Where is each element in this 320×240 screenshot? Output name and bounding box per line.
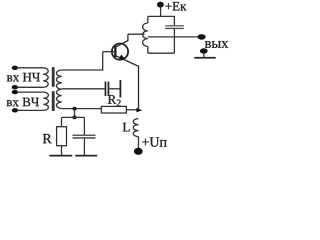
wire: R to ground: [61, 146, 63, 155]
capacitor C1 plate left: [105, 82, 107, 97]
wire: secondary tap to capacitor C1: [62, 88, 105, 90]
junction dot at emitter/R2/L: [136, 108, 142, 113]
label: вых: [205, 41, 228, 48]
wire: base lead: [103, 51, 115, 53]
wire: +Ек stem: [160, 7, 162, 17]
label: R: [43, 134, 52, 143]
node: output terminal: [198, 34, 206, 40]
wire: RC split horizontal: [62, 116, 85, 118]
label: R2 (R): [108, 95, 116, 104]
wire: output ground stem: [203, 53, 205, 58]
wire: tank top: [148, 15, 175, 17]
wire: secondary bottom to R2: [62, 108, 102, 110]
resistor R (box): [57, 127, 67, 146]
transformer T1 core: [52, 67, 55, 87]
node: вх НЧ bottom terminal: [12, 85, 44, 89]
transistor VT1: emitter lead with arrow: [116, 56, 139, 110]
wire: tank bottom: [148, 52, 175, 54]
label: +Ек: [165, 2, 186, 11]
stub plate (bar) right of C1: [120, 80, 122, 98]
transformer T2 primary winding (HF input coil): [43, 92, 48, 110]
junction dot at RC split: [72, 116, 76, 120]
transistor VT1: case circle: [112, 44, 128, 60]
tank capacitor bottom plate: [165, 28, 184, 29]
transistor VT1: collector lead: [116, 34, 128, 47]
tank inductor (3 half-turns): [143, 23, 148, 46]
node: вх ВЧ top terminal: [12, 90, 44, 94]
label: R2 (subscript 2): [117, 100, 121, 107]
tank capacitor top plate: [165, 25, 184, 26]
transformer T1 primary winding (LF input coil): [43, 68, 48, 88]
capacitor C2 bottom plate: [73, 137, 96, 139]
wire: tank left lower: [147, 46, 149, 53]
wire: collector to tank coil tap: [128, 33, 145, 35]
wire: L to +Uп: [138, 137, 140, 149]
resistor R2 (box): [101, 106, 126, 113]
node: вх ВЧ bottom terminal: [12, 108, 44, 112]
wire: drop to capacitor C2: [83, 117, 85, 135]
label: вх ВЧ: [7, 98, 39, 107]
wire: R2 right to emitter junction: [126, 109, 138, 111]
transformer secondary winding (6 half-turns, tapped): [56, 70, 61, 109]
ground bar under C2: [75, 155, 97, 157]
node: output ground terminal: [200, 48, 208, 53]
wire: output from tank coil tap: [148, 36, 200, 38]
label: +Uп: [142, 137, 166, 146]
ground bar under R: [49, 155, 72, 157]
capacitor C2 top plate: [73, 135, 96, 137]
junction dot on bottom wire: [72, 107, 76, 111]
ground bar at output: [194, 57, 216, 59]
wire: junction drop: [74, 109, 76, 118]
label: вх НЧ: [7, 73, 40, 82]
label: L: [123, 123, 130, 132]
node: вх НЧ top terminal: [12, 66, 44, 70]
wire: tank right lower: [173, 29, 175, 53]
wire: base riser (vertical): [102, 52, 104, 71]
wire: secondary top to base riser: [62, 69, 103, 71]
capacitor C1 plate right: [108, 82, 110, 97]
wire: tank left upper: [147, 16, 149, 23]
wire: drop to resistor R: [61, 117, 63, 126]
node: +Ек supply terminal: [157, 2, 164, 8]
inductor L (3 half-turns): [133, 119, 138, 137]
transistor VT1: emitter arrowhead: [119, 55, 125, 60]
transistor VT1: base bar: [114, 46, 116, 57]
wire: C2 to ground: [83, 139, 85, 155]
transformer T2 core: [52, 91, 55, 111]
wire: C1 to stub plate: [109, 88, 119, 90]
wire: tank right upper: [173, 16, 175, 25]
node: +Uп supply terminal: [134, 148, 143, 155]
